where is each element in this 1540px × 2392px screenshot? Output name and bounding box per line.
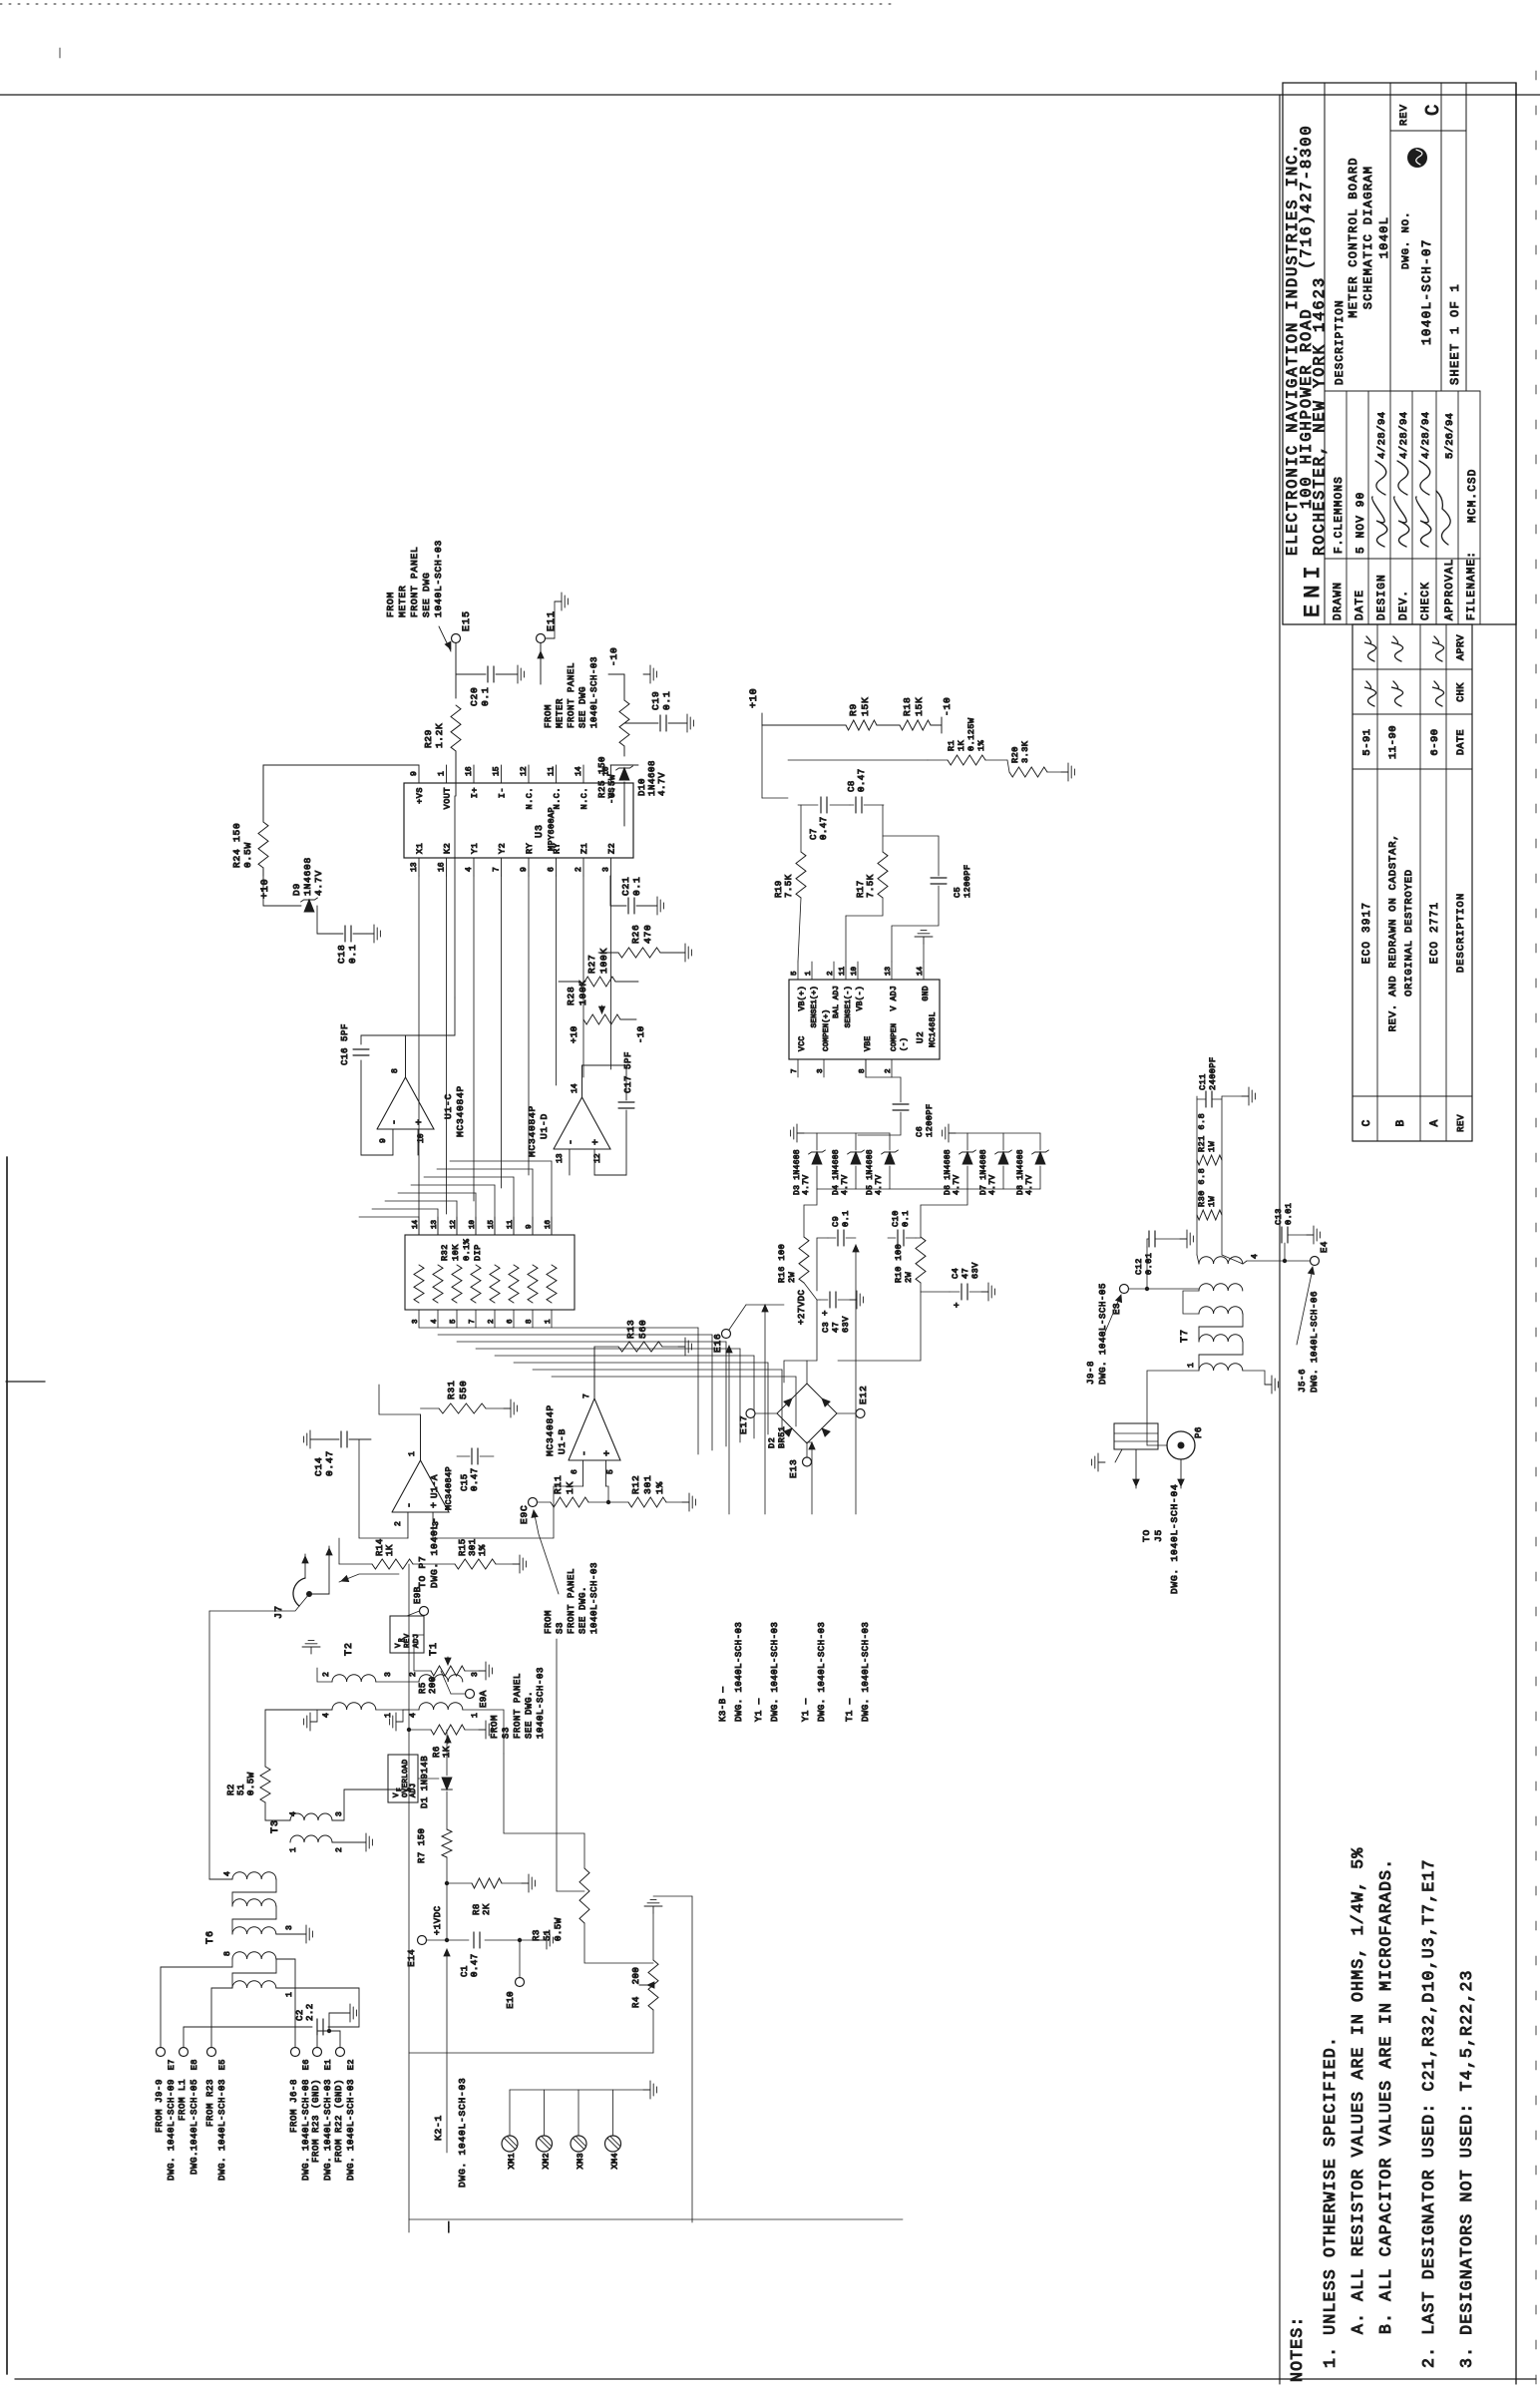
- svg-text:0.47: 0.47: [857, 768, 867, 792]
- svg-text:DWG. 1040L-SCH-03: DWG. 1040L-SCH-03: [346, 2079, 356, 2181]
- svg-text:16: 16: [438, 862, 447, 872]
- svg-text:4: 4: [223, 1871, 232, 1876]
- svg-text:E16: E16: [712, 1333, 723, 1353]
- svg-text:9: 9: [520, 867, 529, 872]
- svg-text:11: 11: [548, 766, 557, 776]
- svg-text:11: 11: [839, 966, 847, 976]
- svg-text:A: A: [1429, 1119, 1441, 1126]
- svg-text:E5: E5: [217, 2059, 227, 2070]
- svg-text:NOTES:: NOTES:: [1288, 2315, 1307, 2382]
- svg-text:U1-C: U1-C: [443, 1093, 454, 1119]
- svg-text:+: +: [415, 1119, 426, 1125]
- svg-text:TO P7: TO P7: [417, 1555, 428, 1588]
- svg-text:4: 4: [465, 867, 474, 872]
- svg-text:9: 9: [379, 1138, 388, 1143]
- svg-text:-: -: [580, 1450, 591, 1456]
- svg-text:FROM: FROM: [385, 592, 396, 617]
- svg-text:T7: T7: [1180, 1329, 1191, 1343]
- svg-text:V ADJ: V ADJ: [890, 986, 899, 1011]
- svg-text:C11: C11: [1198, 1073, 1208, 1090]
- svg-text:14: 14: [575, 766, 583, 776]
- svg-text:C12: C12: [1134, 1258, 1144, 1275]
- svg-text:12: 12: [520, 766, 529, 776]
- svg-text:-VS: -VS: [607, 787, 617, 804]
- svg-text:I-: I-: [498, 787, 508, 798]
- svg-text:C15: C15: [460, 1473, 470, 1491]
- svg-text:DWG. 1040L-SCH-04: DWG. 1040L-SCH-04: [1169, 1483, 1180, 1594]
- svg-text:7: 7: [791, 1068, 799, 1073]
- svg-text:ENI: ENI: [1301, 560, 1326, 617]
- svg-text:DWG. 1040L-SCH-08: DWG. 1040L-SCH-08: [301, 2079, 311, 2181]
- svg-text:550: 550: [458, 1380, 469, 1399]
- svg-text:R28: R28: [566, 986, 577, 1005]
- svg-text:ECO 2771: ECO 2771: [1429, 902, 1441, 964]
- svg-text:DATE: DATE: [1456, 729, 1467, 755]
- svg-text:Y1 —: Y1 —: [801, 1698, 811, 1722]
- svg-text:R31: R31: [446, 1380, 457, 1399]
- svg-text:U3: U3: [535, 824, 546, 838]
- svg-text:K2: K2: [443, 843, 453, 854]
- svg-text:DWG. 1040L-SCH-03: DWG. 1040L-SCH-03: [457, 2077, 468, 2188]
- svg-text:R16 100: R16 100: [777, 1244, 787, 1283]
- svg-text:E17: E17: [738, 1414, 749, 1434]
- svg-text:B. ALL CAPACITOR VALUES ARE IN: B. ALL CAPACITOR VALUES ARE IN MICROFARA…: [1376, 1858, 1395, 2334]
- svg-text:1N4608: 1N4608: [302, 857, 313, 896]
- svg-text:DWG. 1040L-SCH-03: DWG. 1040L-SCH-03: [734, 1622, 744, 1722]
- svg-text:R18: R18: [902, 696, 913, 716]
- svg-text:+10: +10: [260, 879, 271, 899]
- svg-text:VB(-): VB(-): [856, 986, 865, 1011]
- svg-text:V: V: [395, 1643, 403, 1648]
- svg-text:BAL ADJ: BAL ADJ: [833, 986, 841, 1018]
- svg-text:N.C.: N.C.: [579, 787, 589, 809]
- svg-text:+: +: [953, 1303, 962, 1308]
- svg-text:1: 1: [408, 1451, 417, 1456]
- svg-text:C6: C6: [915, 1126, 925, 1137]
- svg-text:2: 2: [827, 971, 835, 976]
- svg-text:FROM L1: FROM L1: [178, 2079, 188, 2121]
- svg-text:8: 8: [526, 1319, 534, 1324]
- svg-text:E12: E12: [858, 1385, 869, 1404]
- svg-text:0.1%: 0.1%: [462, 1238, 472, 1261]
- svg-text:R6: R6: [432, 1746, 442, 1758]
- svg-text:C4: C4: [951, 1268, 961, 1279]
- svg-text:(-): (-): [901, 1037, 909, 1051]
- svg-text:0.5W: 0.5W: [246, 1772, 256, 1795]
- svg-text:2: 2: [575, 867, 583, 872]
- svg-text:-: -: [390, 1119, 401, 1125]
- svg-text:1K: 1K: [385, 1544, 395, 1556]
- svg-text:-: -: [405, 1502, 416, 1508]
- svg-text:6: 6: [571, 1469, 579, 1474]
- svg-text:2: 2: [322, 1672, 331, 1677]
- svg-text:0.5W: 0.5W: [242, 842, 253, 868]
- svg-text:R26: R26: [630, 924, 641, 944]
- svg-text:1200PF: 1200PF: [925, 1103, 935, 1137]
- svg-text:APPROVAL: APPROVAL: [1444, 559, 1456, 620]
- svg-text:2: 2: [394, 1521, 403, 1526]
- svg-text:47: 47: [961, 1268, 970, 1279]
- svg-text:A. ALL RESISTOR VALUES ARE IN: A. ALL RESISTOR VALUES ARE IN OHMS, 1/4W…: [1348, 1847, 1367, 2334]
- svg-text:1040L-SCH-03: 1040L-SCH-03: [589, 1562, 599, 1634]
- svg-text:4.7V: 4.7V: [875, 1175, 884, 1195]
- svg-text:1%: 1%: [478, 1544, 488, 1556]
- svg-text:R5: R5: [418, 1682, 428, 1694]
- svg-text:DEV.: DEV.: [1398, 590, 1410, 620]
- svg-text:0.5W: 0.5W: [554, 1917, 564, 1941]
- svg-text:R4 200: R4 200: [631, 1967, 641, 2008]
- svg-text:4/28/94: 4/28/94: [1398, 411, 1410, 459]
- svg-text:C13: C13: [1274, 1208, 1284, 1225]
- svg-text:0.47: 0.47: [819, 816, 829, 840]
- svg-text:METER: METER: [556, 698, 566, 728]
- svg-text:6: 6: [507, 1319, 515, 1324]
- svg-text:+: +: [430, 1502, 441, 1508]
- svg-text:U2: U2: [916, 1031, 926, 1043]
- svg-text:FROM R22 (GND): FROM R22 (GND): [334, 2079, 344, 2163]
- svg-text:——: ——: [444, 2221, 454, 2233]
- svg-text:1040L-SCH-03: 1040L-SCH-03: [433, 540, 444, 617]
- svg-text:13: 13: [410, 862, 419, 872]
- svg-text:R24 150: R24 150: [231, 822, 242, 868]
- svg-text:C16 5PF: C16 5PF: [340, 1023, 350, 1065]
- svg-text:DWG. NO.: DWG. NO.: [1400, 211, 1412, 269]
- svg-text:7: 7: [469, 1319, 477, 1324]
- svg-text:DWG.1040L-SCH-05: DWG.1040L-SCH-05: [190, 2079, 199, 2175]
- svg-text:DESIGN: DESIGN: [1376, 574, 1388, 620]
- svg-text:-10: -10: [942, 696, 953, 716]
- svg-text:R7 150: R7 150: [417, 1828, 427, 1863]
- svg-text:E14: E14: [407, 1949, 417, 1967]
- svg-text:FROM: FROM: [544, 704, 554, 728]
- svg-text:C17 5PF: C17 5PF: [623, 1051, 633, 1093]
- svg-text:301: 301: [642, 1474, 653, 1494]
- svg-text:U1-B: U1-B: [557, 1428, 568, 1454]
- svg-text:T6: T6: [205, 1930, 216, 1944]
- svg-text:0.47: 0.47: [470, 1467, 480, 1491]
- svg-text:R21 6.8: R21 6.8: [1197, 1113, 1207, 1152]
- svg-text:63V: 63V: [970, 1262, 980, 1279]
- svg-text:FROM R23: FROM R23: [205, 2079, 215, 2127]
- svg-text:15K: 15K: [860, 696, 871, 716]
- svg-text:E10: E10: [506, 1991, 516, 2009]
- svg-text:C2: C2: [295, 2009, 305, 2021]
- svg-text:13: 13: [885, 966, 893, 976]
- svg-text:R20: R20: [1010, 746, 1020, 763]
- svg-text:DIP: DIP: [473, 1244, 483, 1261]
- svg-text:+: +: [591, 1139, 602, 1145]
- svg-text:2: 2: [488, 1319, 496, 1324]
- svg-text:3: 3: [412, 1319, 420, 1324]
- svg-text:XM4: XM4: [610, 2153, 620, 2170]
- svg-text:CHECK: CHECK: [1420, 582, 1432, 620]
- svg-text:1200PF: 1200PF: [962, 864, 972, 898]
- svg-text:C8: C8: [847, 780, 857, 792]
- svg-text:14: 14: [571, 1083, 579, 1093]
- svg-text:E2: E2: [346, 2059, 356, 2070]
- svg-text:3: 3: [471, 1672, 480, 1677]
- svg-text:SENSE1(+): SENSE1(+): [811, 986, 819, 1027]
- svg-text:Y1: Y1: [470, 843, 480, 854]
- svg-text:FRONT PANEL: FRONT PANEL: [567, 1568, 577, 1634]
- svg-text:+: +: [821, 1311, 831, 1316]
- svg-text:E7: E7: [167, 2059, 177, 2070]
- svg-text:R30 6.8: R30 6.8: [1197, 1168, 1207, 1207]
- svg-text:5 NOV 90: 5 NOV 90: [1355, 492, 1367, 554]
- svg-text:301: 301: [468, 1538, 478, 1556]
- svg-text:+10: +10: [749, 688, 760, 708]
- svg-text:D6 1N4608: D6 1N4608: [944, 1149, 953, 1195]
- svg-text:9: 9: [410, 771, 419, 776]
- svg-text:1. UNLESS OTHERWISE SPECIFIED.: 1. UNLESS OTHERWISE SPECIFIED.: [1321, 2036, 1340, 2368]
- svg-text:4.7V: 4.7V: [802, 1175, 811, 1195]
- svg-text:K2-1: K2-1: [433, 2115, 444, 2141]
- svg-text:VBE: VBE: [864, 1035, 873, 1051]
- svg-text:DESCRIPTION: DESCRIPTION: [1455, 893, 1467, 973]
- svg-text:+10: +10: [570, 1025, 579, 1043]
- svg-text:APRV: APRV: [1456, 634, 1467, 660]
- svg-text:MCM.CSD: MCM.CSD: [1467, 468, 1479, 523]
- svg-text:1.2K: 1.2K: [434, 723, 445, 748]
- svg-text:D8 1N4608: D8 1N4608: [1016, 1149, 1025, 1195]
- svg-text:DWG. 1040L-SCH-06: DWG. 1040L-SCH-06: [1310, 1291, 1320, 1393]
- svg-text:D1 1N914B: D1 1N914B: [420, 1756, 430, 1808]
- svg-text:Y1 —: Y1 —: [754, 1698, 764, 1722]
- svg-text:R27: R27: [586, 954, 597, 974]
- svg-text:C21: C21: [620, 876, 631, 896]
- svg-text:3: 3: [335, 1811, 344, 1816]
- svg-text:DATE: DATE: [1354, 590, 1366, 620]
- svg-text:SEE DWG.: SEE DWG.: [578, 1586, 588, 1634]
- svg-text:FROM: FROM: [490, 1715, 500, 1739]
- svg-text:1N4608: 1N4608: [647, 760, 657, 796]
- svg-text:E11: E11: [547, 610, 558, 631]
- svg-text:C3: C3: [821, 1322, 831, 1333]
- svg-text:4.7V: 4.7V: [953, 1175, 962, 1195]
- svg-text:SENSE1(-): SENSE1(-): [845, 986, 853, 1027]
- svg-text:MC34084P: MC34084P: [455, 1085, 466, 1137]
- svg-text:1: 1: [545, 1319, 553, 1324]
- svg-text:RY: RY: [525, 843, 535, 854]
- svg-text:I+: I+: [470, 787, 480, 798]
- svg-text:0.1: 0.1: [841, 1210, 851, 1227]
- svg-text:J5: J5: [1153, 1529, 1164, 1542]
- svg-text:4: 4: [431, 1319, 439, 1324]
- svg-text:2: 2: [409, 1672, 418, 1677]
- svg-text:0.1: 0.1: [901, 1210, 911, 1227]
- svg-text:C18: C18: [336, 944, 347, 964]
- svg-text:5: 5: [450, 1319, 458, 1324]
- svg-text:FRONT PANEL: FRONT PANEL: [567, 662, 577, 728]
- svg-text:R32: R32: [440, 1244, 450, 1261]
- svg-text:10: 10: [602, 766, 611, 776]
- svg-text:3.3K: 3.3K: [1020, 740, 1030, 763]
- svg-text:J5-6: J5-6: [1298, 1369, 1308, 1393]
- svg-text:P6: P6: [1194, 1426, 1204, 1438]
- svg-text:1040L-SCH-07: 1040L-SCH-07: [1420, 238, 1434, 345]
- svg-text:-10: -10: [636, 1025, 646, 1043]
- svg-text:D2: D2: [767, 1437, 777, 1448]
- svg-text:1W: 1W: [1207, 1195, 1217, 1207]
- svg-text:+: +: [602, 1450, 613, 1456]
- svg-text:E6: E6: [301, 2059, 311, 2070]
- svg-text:1K: 1K: [442, 1746, 452, 1758]
- svg-text:2400PF: 2400PF: [1208, 1056, 1218, 1090]
- svg-text:METER CONTROL BOARD: METER CONTROL BOARD: [1347, 157, 1360, 318]
- svg-text:FILENAME:: FILENAME:: [1466, 551, 1478, 620]
- svg-text:R19: R19: [774, 880, 784, 898]
- svg-text:MPY600AP: MPY600AP: [547, 807, 557, 851]
- svg-text:C19: C19: [650, 690, 661, 710]
- svg-text:R8: R8: [472, 1903, 482, 1915]
- svg-text:0.1: 0.1: [631, 876, 642, 896]
- svg-text:K3-B —: K3-B —: [718, 1686, 728, 1722]
- svg-text:0.1: 0.1: [661, 690, 672, 710]
- svg-text:N.C.: N.C.: [553, 787, 563, 809]
- svg-text:2.2: 2.2: [305, 2003, 315, 2021]
- svg-text:U1-D: U1-D: [539, 1113, 550, 1139]
- svg-text:4/28/94: 4/28/94: [1376, 411, 1388, 459]
- svg-text:-: -: [567, 1139, 577, 1145]
- svg-text:Z2: Z2: [607, 843, 617, 854]
- svg-text:13: 13: [556, 1153, 565, 1163]
- svg-text:C9: C9: [831, 1216, 841, 1227]
- svg-text:C: C: [1361, 1119, 1373, 1126]
- svg-text:-10: -10: [608, 646, 619, 666]
- svg-text:3: 3: [602, 867, 611, 872]
- svg-text:DWG. 1040L-SCH-03: DWG. 1040L-SCH-03: [217, 2079, 227, 2181]
- svg-text:D7 1N4608: D7 1N4608: [979, 1149, 988, 1195]
- svg-text:15: 15: [493, 766, 502, 776]
- svg-text:7.5K: 7.5K: [866, 874, 876, 898]
- svg-text:4.7V: 4.7V: [313, 870, 324, 896]
- svg-text:R11: R11: [553, 1474, 564, 1494]
- svg-text:FRONT PANEL: FRONT PANEL: [409, 546, 420, 617]
- svg-text:4: 4: [289, 1811, 298, 1816]
- svg-text:S3: S3: [502, 1727, 512, 1739]
- svg-text:0.125W: 0.125W: [966, 717, 976, 751]
- svg-text:C20: C20: [469, 686, 480, 706]
- svg-text:VOUT: VOUT: [443, 787, 453, 809]
- svg-text:BR51: BR51: [777, 1426, 787, 1448]
- svg-text:1: 1: [1187, 1363, 1196, 1368]
- svg-text:SEE DWG: SEE DWG: [421, 572, 432, 617]
- svg-text:1: 1: [438, 771, 447, 776]
- svg-text:T3: T3: [270, 1819, 281, 1833]
- svg-text:TO: TO: [1141, 1529, 1152, 1542]
- svg-text:14: 14: [917, 966, 925, 976]
- svg-text:5: 5: [606, 1469, 615, 1474]
- svg-text:1%: 1%: [976, 739, 986, 751]
- svg-text:R15: R15: [458, 1538, 468, 1556]
- svg-text:11-90: 11-90: [1387, 725, 1399, 759]
- svg-text:1: 1: [289, 1847, 298, 1852]
- svg-text:MC34084P: MC34084P: [545, 1404, 556, 1456]
- svg-text:4: 4: [322, 1713, 331, 1718]
- svg-text:+VS: +VS: [415, 787, 425, 804]
- svg-text:T2: T2: [344, 1642, 355, 1656]
- svg-text:R2: R2: [226, 1784, 236, 1795]
- svg-text:DWG. 1040L-SCH-03: DWG. 1040L-SCH-03: [770, 1622, 780, 1722]
- svg-text:DWG. 1040L-SCH-03: DWG. 1040L-SCH-03: [323, 2079, 333, 2181]
- svg-text:1K: 1K: [565, 1481, 576, 1494]
- svg-text:3: 3: [817, 1068, 825, 1073]
- svg-text:D3 1N4608: D3 1N4608: [793, 1149, 802, 1195]
- svg-text:D4 1N4608: D4 1N4608: [832, 1149, 841, 1195]
- svg-text:5: 5: [791, 971, 799, 976]
- svg-text:5/26/94: 5/26/94: [1444, 413, 1456, 459]
- svg-text:CHK: CHK: [1456, 682, 1467, 702]
- svg-text:GND: GND: [922, 986, 931, 1001]
- svg-text:1040L-SCH-03: 1040L-SCH-03: [536, 1667, 546, 1739]
- svg-text:1: 1: [805, 971, 813, 976]
- svg-text:R10 100: R10 100: [894, 1244, 904, 1283]
- svg-text:FROM R23 (GND): FROM R23 (GND): [311, 2079, 321, 2163]
- svg-text:D10: D10: [637, 778, 647, 796]
- svg-text:51: 51: [543, 1929, 553, 1941]
- svg-text:D5 1N4608: D5 1N4608: [866, 1149, 875, 1195]
- svg-text:S3: S3: [556, 1622, 566, 1634]
- svg-text:E15: E15: [462, 610, 473, 631]
- svg-text:B: B: [1395, 1119, 1407, 1126]
- svg-text:1: 1: [384, 1713, 393, 1718]
- svg-text:(716)427-8300: (716)427-8300: [1298, 124, 1316, 269]
- svg-text:C1: C1: [460, 1965, 470, 1977]
- svg-text:F.CLEMMONS: F.CLEMMONS: [1334, 476, 1346, 554]
- svg-text:ECO 3917: ECO 3917: [1361, 902, 1373, 964]
- svg-text:2: 2: [885, 1068, 893, 1073]
- svg-text:7.5K: 7.5K: [784, 874, 794, 898]
- svg-text:MC34084P: MC34084P: [444, 1466, 454, 1510]
- svg-text:VB(+): VB(+): [798, 986, 807, 1011]
- svg-text:+27VDC: +27VDC: [797, 1289, 807, 1325]
- svg-text:10: 10: [851, 966, 859, 976]
- svg-text:SHEET 1 OF 1: SHEET 1 OF 1: [1448, 283, 1462, 385]
- svg-text:ADJ: ADJ: [410, 1784, 418, 1797]
- svg-text:Z1: Z1: [579, 843, 589, 854]
- svg-text:0.47: 0.47: [324, 1450, 335, 1476]
- svg-text:2. LAST DESIGNATOR USED: C21,R: 2. LAST DESIGNATOR USED: C21,R32,D10,U3,…: [1419, 1858, 1438, 2368]
- svg-text:4/28/94: 4/28/94: [1420, 411, 1432, 459]
- svg-text:DESCRIPTION: DESCRIPTION: [1335, 299, 1347, 385]
- svg-text:5-91: 5-91: [1361, 728, 1373, 755]
- svg-text:DWG. 1040L-SCH-03: DWG. 1040L-SCH-03: [861, 1622, 871, 1722]
- svg-text:2K: 2K: [482, 1903, 492, 1915]
- svg-text:2W: 2W: [787, 1271, 797, 1283]
- svg-text:J9-8: J9-8: [1086, 1361, 1096, 1385]
- svg-text:REV: REV: [1398, 104, 1410, 126]
- svg-text:MC34084P: MC34084P: [527, 1105, 538, 1157]
- svg-text:C7: C7: [809, 828, 819, 840]
- svg-text:REV. AND REDRAWN ON CADSTAR,: REV. AND REDRAWN ON CADSTAR,: [1387, 834, 1399, 1032]
- svg-text:U1-A: U1-A: [430, 1474, 440, 1498]
- svg-text:COMPEN(+): COMPEN(+): [823, 1009, 831, 1051]
- svg-text:DWG. 1040L-SCH-09: DWG. 1040L-SCH-09: [167, 2079, 177, 2181]
- svg-text:T1 —: T1 —: [845, 1698, 855, 1722]
- svg-text:R29: R29: [423, 729, 434, 748]
- svg-text:1K: 1K: [957, 739, 966, 751]
- svg-text:R12: R12: [630, 1474, 641, 1494]
- svg-text:7: 7: [582, 1394, 591, 1398]
- svg-text:0.1: 0.1: [347, 944, 358, 964]
- svg-text:E9A: E9A: [479, 1690, 489, 1708]
- svg-text:FRONT PANEL: FRONT PANEL: [513, 1673, 523, 1739]
- svg-text:R17: R17: [856, 880, 866, 898]
- svg-text:47: 47: [831, 1322, 841, 1333]
- svg-text:DRAWN: DRAWN: [1333, 582, 1345, 620]
- svg-text:DWG. 1040L-SCH-05: DWG. 1040L-SCH-05: [1098, 1283, 1108, 1385]
- svg-text:0.47: 0.47: [470, 1953, 480, 1977]
